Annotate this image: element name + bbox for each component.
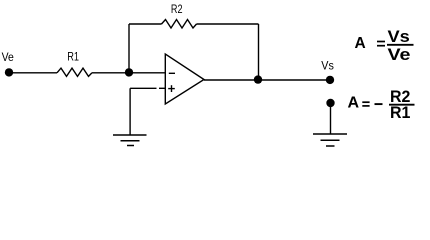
wire plus input segment b xyxy=(159,87,166,89)
svg-text:Vs: Vs xyxy=(321,58,334,72)
resistor R2 xyxy=(162,20,197,29)
input terminal dot xyxy=(5,68,13,76)
wire output xyxy=(204,79,330,81)
junction dot output node xyxy=(254,75,262,83)
wire feedback drop to output xyxy=(258,24,260,80)
wire top to R2 xyxy=(129,23,162,25)
op-amp minus symbol xyxy=(169,72,175,74)
op-amp plus symbol xyxy=(168,85,175,92)
node Vs terminal dot xyxy=(326,76,334,84)
svg-text:Ve: Ve xyxy=(2,52,14,64)
junction dot inverting input node xyxy=(125,68,133,76)
wire R2 to right drop xyxy=(197,23,259,25)
svg-text:R1: R1 xyxy=(67,52,79,64)
formula gain A equals minus R2 over R1 xyxy=(348,88,415,122)
formula gain A equals Vs over Ve xyxy=(355,28,414,64)
svg-text:Ve: Ve xyxy=(388,46,411,64)
wire feedback riser up from junction xyxy=(128,24,130,73)
ground left xyxy=(113,135,147,146)
svg-text:R2: R2 xyxy=(171,4,183,16)
wire input to R1 xyxy=(9,72,57,74)
wire riser down to left ground xyxy=(129,88,131,135)
op-amp U1 triangle xyxy=(165,54,204,104)
wire R1 to junction xyxy=(92,72,129,74)
wire junction to op-amp minus input xyxy=(129,72,166,74)
svg-text:R1: R1 xyxy=(390,104,410,122)
resistor R1 xyxy=(57,68,92,76)
wire down to right ground xyxy=(330,103,332,134)
ground right xyxy=(313,134,347,146)
svg-text:Vs: Vs xyxy=(388,28,410,46)
svg-text:A: A xyxy=(348,95,360,112)
wire plus input segment a xyxy=(130,87,156,89)
svg-text:A: A xyxy=(355,35,366,52)
node dot right ground tap xyxy=(326,99,334,107)
